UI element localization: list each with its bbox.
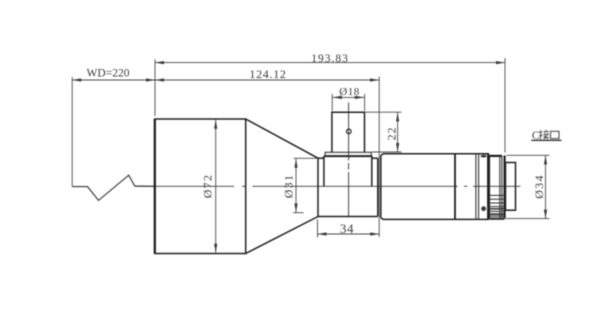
svg-text:193.83: 193.83 <box>311 53 349 65</box>
dimension 124.12 <box>155 79 379 81</box>
glyph kou (mouth box) <box>551 131 559 138</box>
flange under eyepiece <box>325 152 371 155</box>
object plane extension line <box>71 77 73 187</box>
underline of C-interface <box>531 139 561 141</box>
dimension phi34 <box>545 155 547 218</box>
main rear cylinder <box>381 154 455 156</box>
rear thread barrel <box>490 155 502 157</box>
dimension phi18 <box>332 96 364 98</box>
rear ring face thick <box>487 154 489 220</box>
front barrel left edge thick <box>154 119 156 254</box>
svg-text:Ø34: Ø34 <box>532 174 546 199</box>
dimension 34 <box>318 233 380 235</box>
set screw top <box>481 155 487 158</box>
cone top slant <box>246 119 318 158</box>
svg-text:34: 34 <box>340 221 354 236</box>
dimension phi31 <box>295 159 297 213</box>
svg-text:WD=220: WD=220 <box>87 67 130 79</box>
rear cylinder second segment <box>455 153 489 155</box>
glyph jie (hand-drawn) <box>539 130 549 140</box>
extension line at 124.12 end <box>378 77 380 238</box>
eyepiece cylinder <box>332 112 365 152</box>
dimension phi72 <box>215 120 217 253</box>
dimension 193.83 <box>155 62 505 64</box>
C-mount thread stub <box>506 163 516 211</box>
svg-text:Ø72: Ø72 <box>200 174 214 199</box>
set screw bottom <box>481 206 486 211</box>
vertical centerline of eyepiece <box>348 103 350 217</box>
svg-text:124.12: 124.12 <box>249 67 286 81</box>
mid body phi31 section <box>317 158 319 216</box>
eyepiece center dot <box>347 129 352 134</box>
prism block <box>324 156 372 186</box>
cone bottom slant <box>246 217 318 254</box>
extension line rear <box>504 58 506 153</box>
thread hatch lines <box>490 195 505 216</box>
svg-text:22: 22 <box>385 127 399 141</box>
section boundary <box>454 154 456 220</box>
horizontal centerline <box>135 185 521 187</box>
front barrel cylinder <box>155 119 246 254</box>
svg-text:Ø31: Ø31 <box>282 174 296 199</box>
extension line front <box>154 59 156 116</box>
dimension WD=220 <box>72 79 155 81</box>
dimension 22 <box>397 112 399 152</box>
svg-text:Ø18: Ø18 <box>339 86 359 98</box>
object plane zigzag wire <box>72 175 155 200</box>
